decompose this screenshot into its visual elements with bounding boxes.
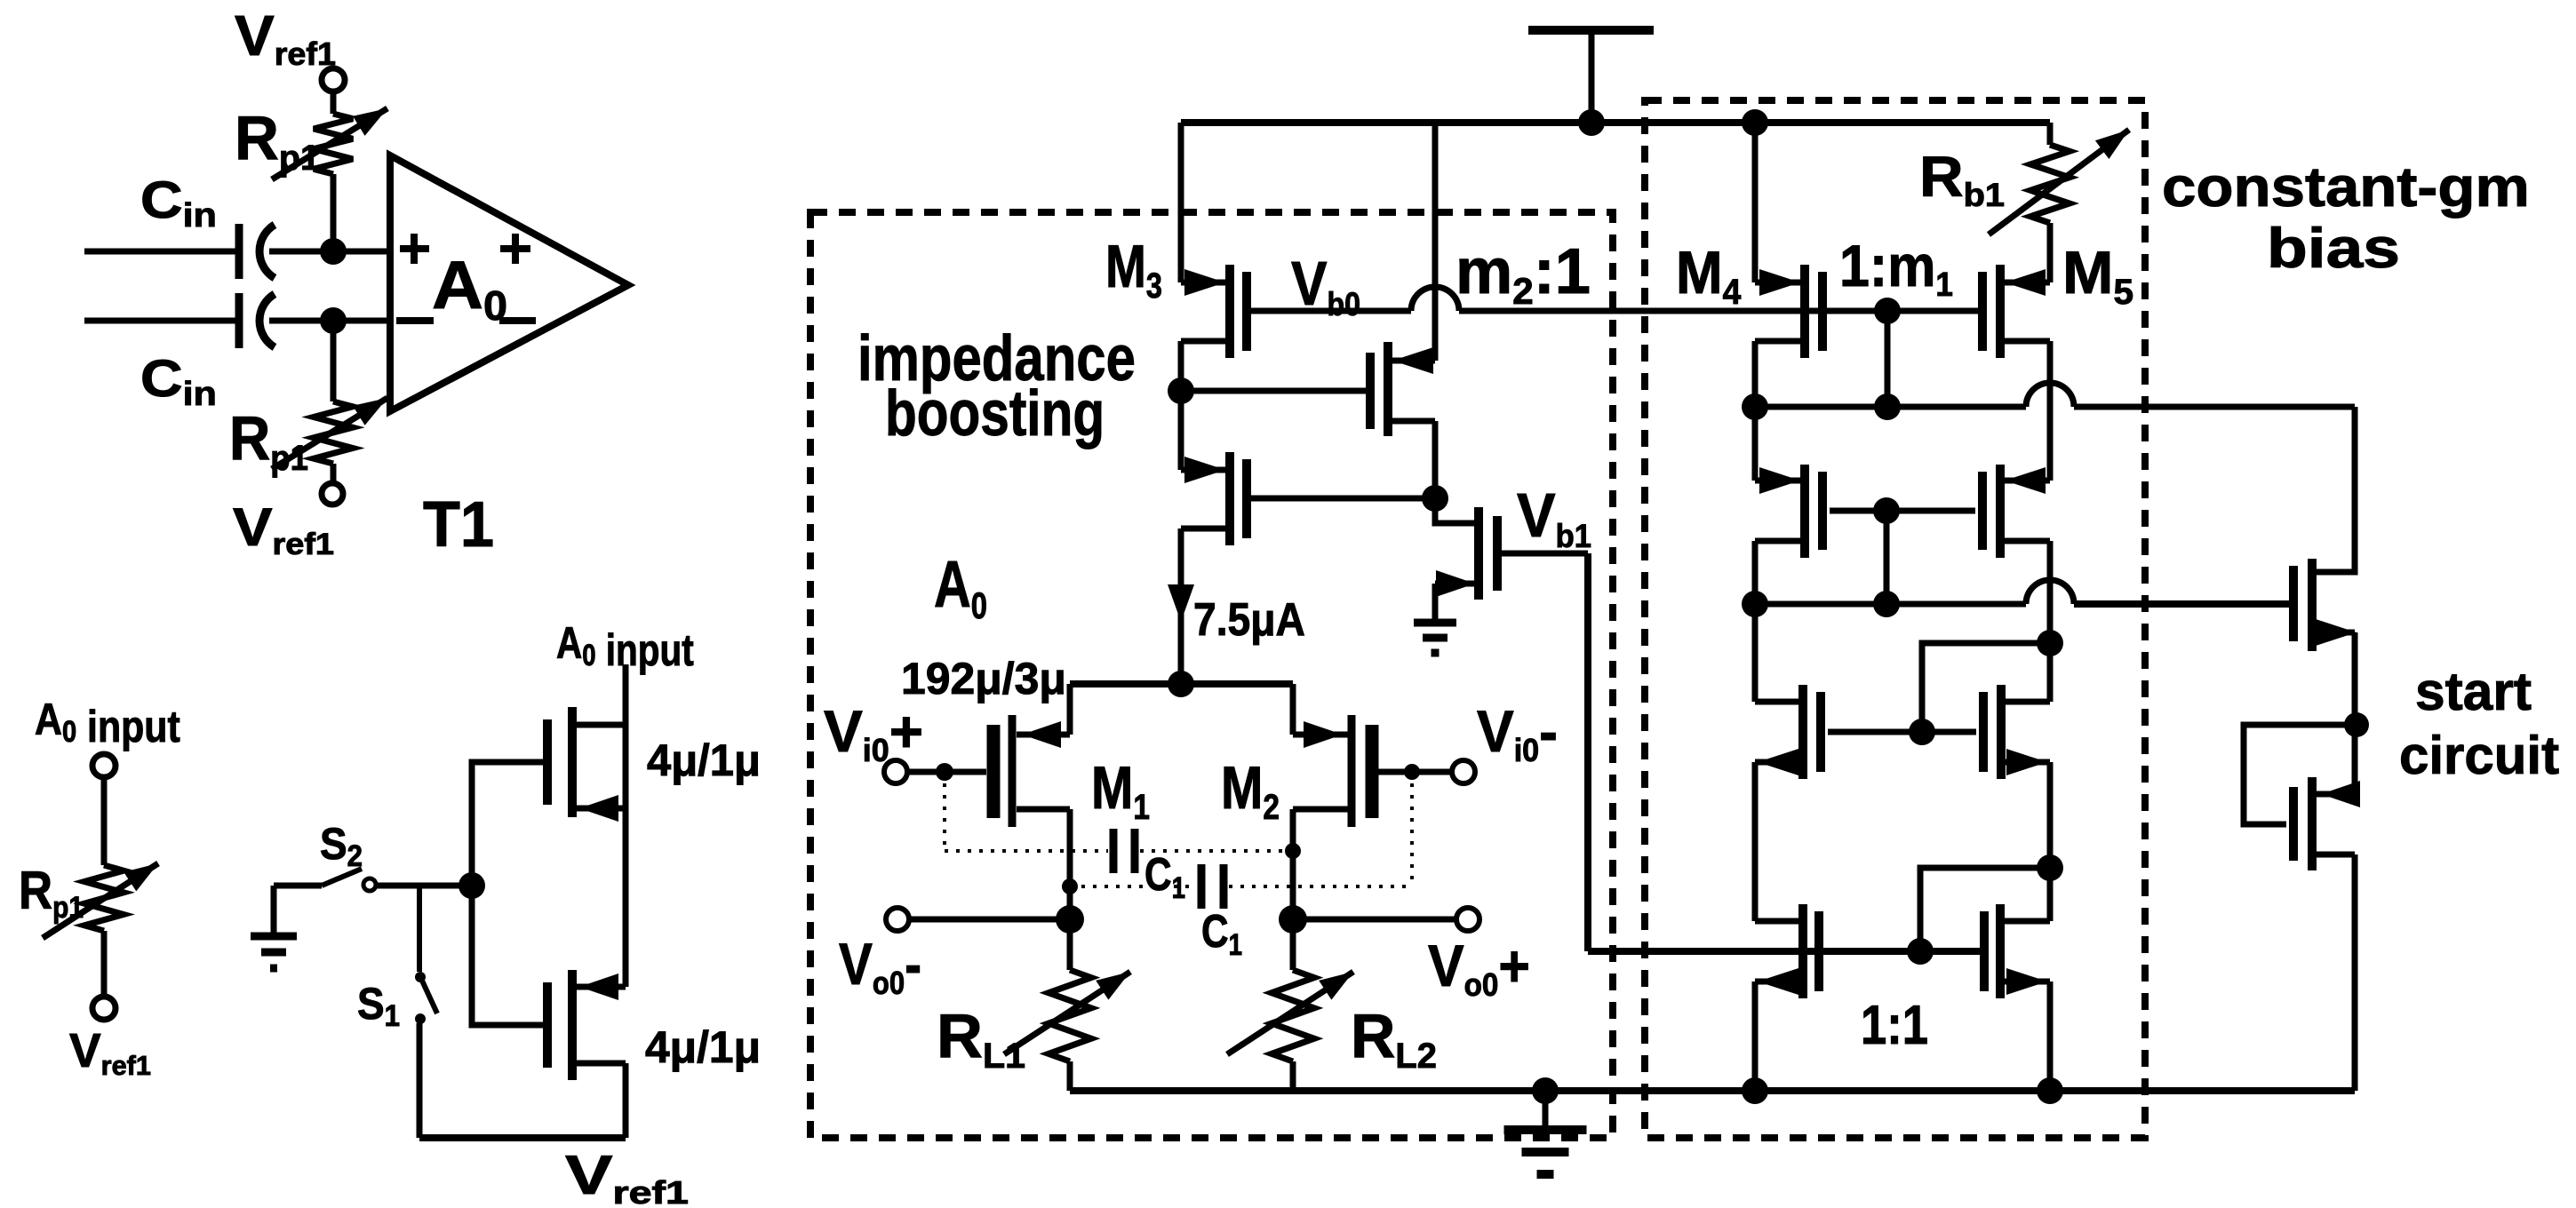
block label impedance boosting — [857, 323, 1136, 449]
wire A0 input drop — [623, 664, 629, 725]
power supply bar — [1528, 30, 1654, 123]
node Vi0+ label — [824, 698, 923, 768]
node dotted junction M2 drain — [1285, 843, 1301, 859]
wire Rp1 to +input node — [331, 174, 337, 251]
node M3 drain junction — [1168, 377, 1194, 404]
node Vref1 label (top) — [235, 4, 336, 71]
terminal Vref1 (bottom) — [322, 483, 343, 505]
wire Rp1 to Vref1 terminal — [331, 464, 337, 483]
resistor RL2 label — [1351, 1001, 1437, 1076]
wire start mid — [2352, 632, 2358, 725]
block label constant-gm bias — [2162, 155, 2530, 280]
transistor N1 (cascode nmos left) — [1755, 685, 1976, 779]
ground (Vb1) — [1414, 623, 1456, 653]
node mirror line left dot — [1742, 591, 1768, 617]
wire right column row3 — [2047, 643, 2054, 702]
wire row2 line — [1755, 383, 2355, 407]
op-amp A0 — [390, 155, 628, 411]
wire input+ left — [84, 249, 235, 255]
wire P3 gate line — [1251, 496, 1435, 502]
wire row4 stub — [1920, 868, 2050, 951]
wire start drain link — [2317, 407, 2355, 572]
transistor upper 4u/1u label — [647, 736, 761, 786]
terminal Vref1 (top) — [322, 68, 345, 91]
wire Vi0+ to gate — [907, 769, 986, 775]
terminal Vi0- — [1452, 760, 1475, 783]
wire diode link row3 — [1922, 643, 2050, 732]
node Vb1 link dot — [2037, 854, 2063, 881]
resistor Rb1 label — [1919, 146, 2005, 214]
wire dotted M2 gate drop — [1410, 772, 1414, 886]
svg-text:bias: bias — [2267, 217, 2400, 280]
node M1 drain output junction — [1056, 905, 1084, 934]
resistor Rp1 (upper, variable) — [272, 108, 387, 179]
resistor Rp1 (lower, variable) — [272, 398, 387, 469]
wire dotted upper — [945, 849, 1108, 853]
wire rail corner to Rb1 — [2047, 123, 2054, 145]
transistor lower 4u/1u label — [645, 1022, 761, 1072]
ground (S2) — [251, 886, 297, 968]
capacitor C1 label (lower) — [1201, 906, 1242, 962]
wire junction up to gate (upper 4u) — [472, 762, 543, 886]
node M2 gate junction — [1404, 764, 1420, 780]
wire Vb1 row4 line — [1588, 948, 1984, 955]
transistor P3 (current source) — [1181, 452, 1247, 545]
wire rail to P2 source — [1432, 123, 1439, 361]
transistor P2 (cascode mirror) — [1370, 342, 1435, 436]
terminal A0 input (left) — [92, 754, 116, 777]
wire -input node to Rp1 lower — [331, 321, 337, 401]
node right column dot — [2037, 630, 2063, 656]
node junction S-node — [459, 872, 485, 899]
transistor P5 (cascode right) — [1982, 465, 2050, 558]
switch S1 label — [357, 980, 400, 1032]
wire Vo0- to M1 drain — [909, 917, 1070, 923]
capacitor C1 (lower) — [1201, 864, 1224, 909]
block label T1 — [423, 488, 494, 560]
wire dotted upper right — [1140, 849, 1293, 853]
node Vi0+ junction — [936, 763, 953, 781]
wire M2 gate lead — [1378, 769, 1452, 775]
node Vref1 label (left) — [69, 1024, 151, 1081]
wire dotted lower right — [1229, 885, 1412, 888]
node mirror line stub dot — [1873, 591, 1900, 617]
svg-text:A0 input: A0 input — [35, 695, 180, 751]
op-amp - output sign — [499, 317, 536, 324]
node row2 left dot — [1742, 393, 1768, 420]
wire Rb1 to M5 source — [2047, 223, 2054, 282]
resistor Rp1 (left, variable) — [43, 863, 158, 938]
capacitor Cin (lower) — [239, 293, 275, 348]
wire top rail — [1181, 119, 2050, 126]
wire Vb0 gate line — [1251, 287, 1982, 311]
resistor Rp1 label (left) — [19, 861, 84, 925]
wire ground stem — [1543, 1091, 1549, 1128]
block label start circuit — [2399, 661, 2559, 785]
wire P5 drain down — [2047, 541, 2054, 643]
net Vb0 label — [1291, 249, 1360, 323]
wire bottom rail (Vref1) — [419, 1134, 626, 1141]
wire A0 input to Rp1 — [101, 777, 108, 865]
resistor Rp1 label (upper) — [235, 103, 320, 178]
resistor RL1 (variable) — [1004, 970, 1130, 1061]
dashed box constant-gm bias — [1645, 100, 2145, 1138]
capacitor Cin label (upper) — [140, 172, 217, 234]
node dotted junction M1 drain — [1062, 878, 1078, 894]
wire ground to S2 — [274, 883, 322, 889]
transistor P4 (cascode left) — [1755, 465, 1822, 558]
wire row2 left source — [1752, 407, 1759, 481]
node Vb0 dot — [1874, 298, 1901, 324]
transistor M3 label — [1105, 234, 1162, 306]
label m2:1 — [1455, 236, 1591, 312]
wire S1 drop — [417, 886, 422, 972]
node junction +input — [320, 238, 347, 265]
svg-text:4μ/1μ: 4μ/1μ — [645, 1022, 761, 1072]
transistor M2 label — [1221, 754, 1280, 826]
node A0 input label (left) — [35, 695, 180, 751]
wire M5 drain down — [2047, 341, 2054, 481]
transistor M4 — [1755, 265, 1822, 358]
wire drain-source right — [623, 725, 629, 987]
svg-text:192μ/3μ: 192μ/3μ — [901, 654, 1066, 703]
label 7.5uA — [1193, 593, 1305, 645]
wire lower source down — [623, 1063, 629, 1138]
svg-text:1:1: 1:1 — [1861, 995, 1928, 1056]
wire dotted M1 gate drop — [943, 772, 946, 851]
op-amp + output sign — [500, 234, 530, 264]
wire Vb0 stub — [1885, 311, 1891, 407]
op-amp - input sign — [396, 317, 434, 324]
wire cap to opamp - — [269, 318, 392, 324]
node Vref1 label (bottom) — [233, 498, 334, 560]
resistor Rp1 label (lower) — [229, 403, 308, 478]
terminal Vo0+ — [1456, 908, 1479, 931]
terminal Vo0- — [886, 908, 909, 931]
wire N1 source down — [1752, 762, 1759, 921]
wire start source down — [2352, 725, 2358, 1091]
node row4 gate dot — [1907, 938, 1934, 965]
transistor S-N2 (start lower diode) — [2293, 777, 2360, 870]
wire start gate loop — [2244, 725, 2357, 824]
resistor Rb1 (variable) — [1989, 130, 2129, 234]
node rail dot 2 — [1742, 109, 1768, 136]
wire M3 junction to P3 source — [1178, 391, 1184, 470]
wire M1 source up — [1067, 684, 1073, 735]
svg-text:circuit: circuit — [2399, 726, 2559, 785]
wire N4 source down — [2047, 981, 2054, 1091]
wire N4 drain down — [2047, 868, 2054, 921]
wire Vb1 gate down — [1584, 553, 1591, 951]
node Vi0- label — [1477, 698, 1558, 768]
wire S2 to junction — [376, 883, 472, 889]
resistor RL1 label — [937, 1002, 1025, 1076]
wire P4 drain down — [1752, 541, 1759, 604]
switch S1 — [415, 972, 437, 1024]
node Vref1 label (block) — [565, 1145, 689, 1208]
wire P2 drain down — [1432, 421, 1439, 498]
svg-text:start: start — [2415, 661, 2532, 721]
transistor M3 — [1181, 265, 1247, 358]
wire dotted lower left — [1070, 885, 1196, 888]
wire rail to M4 source — [1752, 123, 1759, 282]
capacitor Cin (upper) — [239, 224, 275, 279]
wire M2 drain down — [1290, 809, 1296, 970]
transistor M1 — [993, 715, 1070, 827]
wire Vb1 source to ground — [1432, 584, 1439, 621]
wire left column row3 — [1752, 604, 1759, 702]
node rail dot N4 — [2037, 1077, 2063, 1104]
switch S2 label — [320, 820, 363, 872]
wire N3 source down — [1752, 981, 1759, 1091]
node junction -input — [320, 307, 347, 334]
wire rail to M3 source — [1178, 123, 1184, 282]
wire M3 drain down — [1178, 341, 1184, 391]
node cascode gate dot — [1873, 497, 1900, 524]
svg-text:4μ/1μ: 4μ/1μ — [647, 736, 761, 786]
node row2 stub dot — [1874, 393, 1901, 420]
node start mid dot — [2344, 712, 2369, 737]
wire Vo0+ to M2 drain — [1293, 917, 1456, 923]
node row3 gate dot — [1909, 719, 1935, 745]
label 192u/3u — [901, 654, 1066, 703]
capacitor C1 label (upper) — [1144, 849, 1185, 905]
transistor M1 label — [1091, 754, 1150, 826]
wire cap to opamp + — [269, 249, 392, 255]
label 1:1 — [1861, 995, 1928, 1056]
transistor N4 (mirror nmos right) — [1984, 904, 2050, 998]
node rail dot 1 — [1578, 109, 1605, 136]
wire M3 drain to P2 gate — [1181, 388, 1370, 394]
node P2 drain junction — [1422, 485, 1448, 512]
op-amp + input sign — [400, 234, 429, 264]
svg-text:7.5μA: 7.5μA — [1193, 593, 1305, 645]
node Vo0+ label — [1428, 934, 1530, 1004]
transistor M5 — [1982, 265, 2050, 358]
transistor M2 — [1293, 715, 1372, 827]
wire mirror line — [1755, 580, 2286, 604]
transistor N3 (mirror nmos left) — [1755, 904, 1819, 998]
wire N2 source down — [2047, 762, 2054, 868]
wire M4 drain down — [1752, 341, 1759, 407]
transistor S-N1 (start upper) — [2286, 559, 2357, 651]
node Vo0- label — [839, 932, 921, 1002]
svg-text:boosting: boosting — [885, 377, 1105, 449]
wire RL1 down — [1067, 1061, 1073, 1091]
transistor lower 4u/1u — [472, 886, 626, 1080]
transistor upper 4u/1u — [547, 707, 626, 822]
net Vb1 label — [1517, 481, 1591, 554]
terminal Vref1 (left) — [92, 997, 116, 1020]
transistor Vb1 bias — [1435, 498, 1588, 600]
switch S2 — [322, 869, 376, 891]
wire Vref1 to Rp1 — [331, 91, 337, 114]
node bottom rail dot (ground) — [1532, 1077, 1559, 1104]
wire bottom rail — [1070, 1087, 2355, 1094]
transistor M4 label — [1676, 239, 1742, 312]
wire Rp1 to Vref1 — [101, 931, 108, 997]
ground (main) — [1504, 1130, 1587, 1174]
block label A0 (amplifier) — [934, 548, 987, 626]
node tail junction — [1168, 671, 1194, 697]
op-amp A0 label — [432, 247, 507, 330]
wire cascode gate stub — [1884, 511, 1890, 604]
wire S1 to bottom rail — [417, 1023, 423, 1138]
wire M2 source up — [1290, 684, 1296, 735]
wire input- left — [84, 318, 235, 324]
label 1:m1 — [1839, 234, 1953, 304]
wire M1 drain down — [1067, 809, 1073, 970]
transistor N2 (cascode nmos right) — [1983, 685, 2050, 779]
capacitor Cin label (lower) — [140, 351, 217, 413]
wire tail rail — [1070, 680, 1293, 687]
dashed box impedance boosting — [810, 212, 1613, 1138]
node M2 drain output junction — [1279, 905, 1307, 934]
node A0 input label (block) — [556, 618, 694, 675]
transistor M5 label — [2062, 238, 2133, 312]
svg-text:T1: T1 — [423, 488, 494, 560]
terminal Vi0+ — [884, 760, 907, 783]
wire cascode gate lead — [1830, 508, 1975, 514]
svg-text:constant-gm: constant-gm — [2162, 155, 2530, 219]
resistor RL2 (variable) — [1227, 970, 1353, 1061]
capacitor C1 (upper) — [1113, 829, 1135, 873]
wire RL2 down — [1290, 1061, 1296, 1091]
wire P3 drain down with current arrow — [1168, 528, 1194, 685]
node rail dot N3 — [1742, 1077, 1768, 1104]
